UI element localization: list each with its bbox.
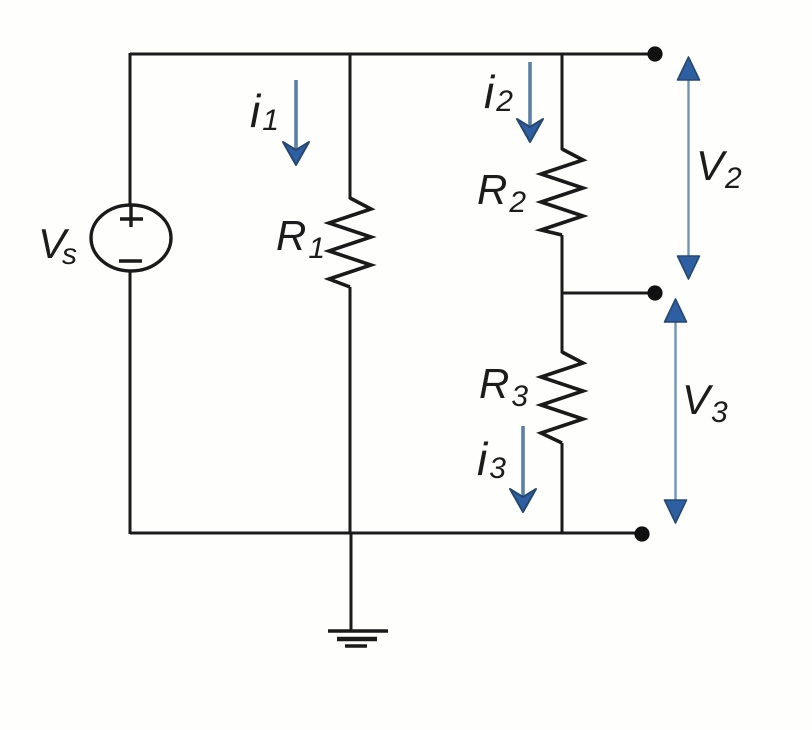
node middle dot <box>647 285 662 300</box>
wire R3 bottom lead <box>561 443 564 533</box>
wire R2 top lead <box>561 54 564 150</box>
resistor R3 <box>541 352 583 443</box>
wire R1 top lead <box>349 54 352 199</box>
wire R1 bottom lead <box>349 287 352 533</box>
wire middle tap <box>562 292 650 295</box>
wire ground stem <box>350 533 353 630</box>
node top right dot <box>647 46 662 61</box>
resistor R2 <box>541 149 583 235</box>
current arrow i3 <box>510 426 536 512</box>
wire between R2 and R3 <box>561 235 564 353</box>
voltage source U Vs <box>91 205 171 271</box>
wire left top segment <box>129 53 132 206</box>
wire top rail <box>130 53 655 56</box>
wire left bottom segment <box>129 271 132 534</box>
resistor R1 <box>329 198 371 287</box>
voltage arrow V2 <box>678 57 700 279</box>
current arrow i2 <box>517 62 543 142</box>
voltage arrow V3 <box>665 299 687 523</box>
wire bottom rail <box>130 532 642 535</box>
node bottom right dot <box>634 526 649 541</box>
current arrow i1 <box>283 80 309 165</box>
ground <box>328 631 388 646</box>
